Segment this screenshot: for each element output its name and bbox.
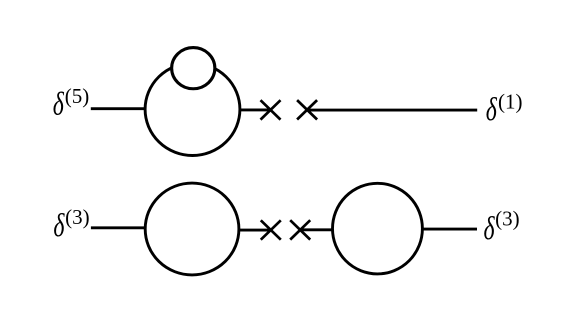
wire: right external leg of bottom diagram [423, 228, 477, 231]
wire: left external leg of bottom diagram [91, 226, 145, 229]
loop: left bubble of bottom diagram [145, 183, 239, 275]
wire: second cross to right external leg (top) [307, 109, 477, 112]
svg-text:δ: δ [484, 210, 496, 247]
label delta^(1) [486, 89, 523, 128]
loop: right bubble of bottom diagram [333, 183, 423, 274]
counterterm cross X3 (bottom) [261, 220, 281, 239]
svg-text:(5): (5) [65, 84, 90, 108]
label delta^(5) [53, 84, 90, 122]
wire: second cross to right bubble (bottom) [300, 228, 333, 231]
loop: big sunset circle of top diagram [145, 63, 240, 155]
loop: small tadpole circle on top of big circle [172, 48, 215, 89]
svg-text:δ: δ [486, 91, 498, 128]
counterterm cross X4 (bottom) [290, 220, 310, 239]
counterterm cross X2 (top) [297, 100, 317, 119]
label delta^(3) bottom left [53, 205, 89, 244]
svg-text:(3): (3) [495, 207, 519, 231]
svg-text:(1): (1) [498, 89, 523, 113]
wire: big circle to first cross (top) [240, 108, 271, 111]
counterterm cross X1 (top) [261, 100, 281, 119]
wire: left external leg of top diagram [91, 107, 145, 110]
wire: left bubble to first cross (bottom) [240, 229, 271, 232]
svg-text:δ: δ [53, 86, 65, 123]
svg-text:(3): (3) [65, 205, 90, 229]
svg-text:δ: δ [53, 208, 65, 245]
label delta^(3) bottom right [484, 207, 520, 247]
